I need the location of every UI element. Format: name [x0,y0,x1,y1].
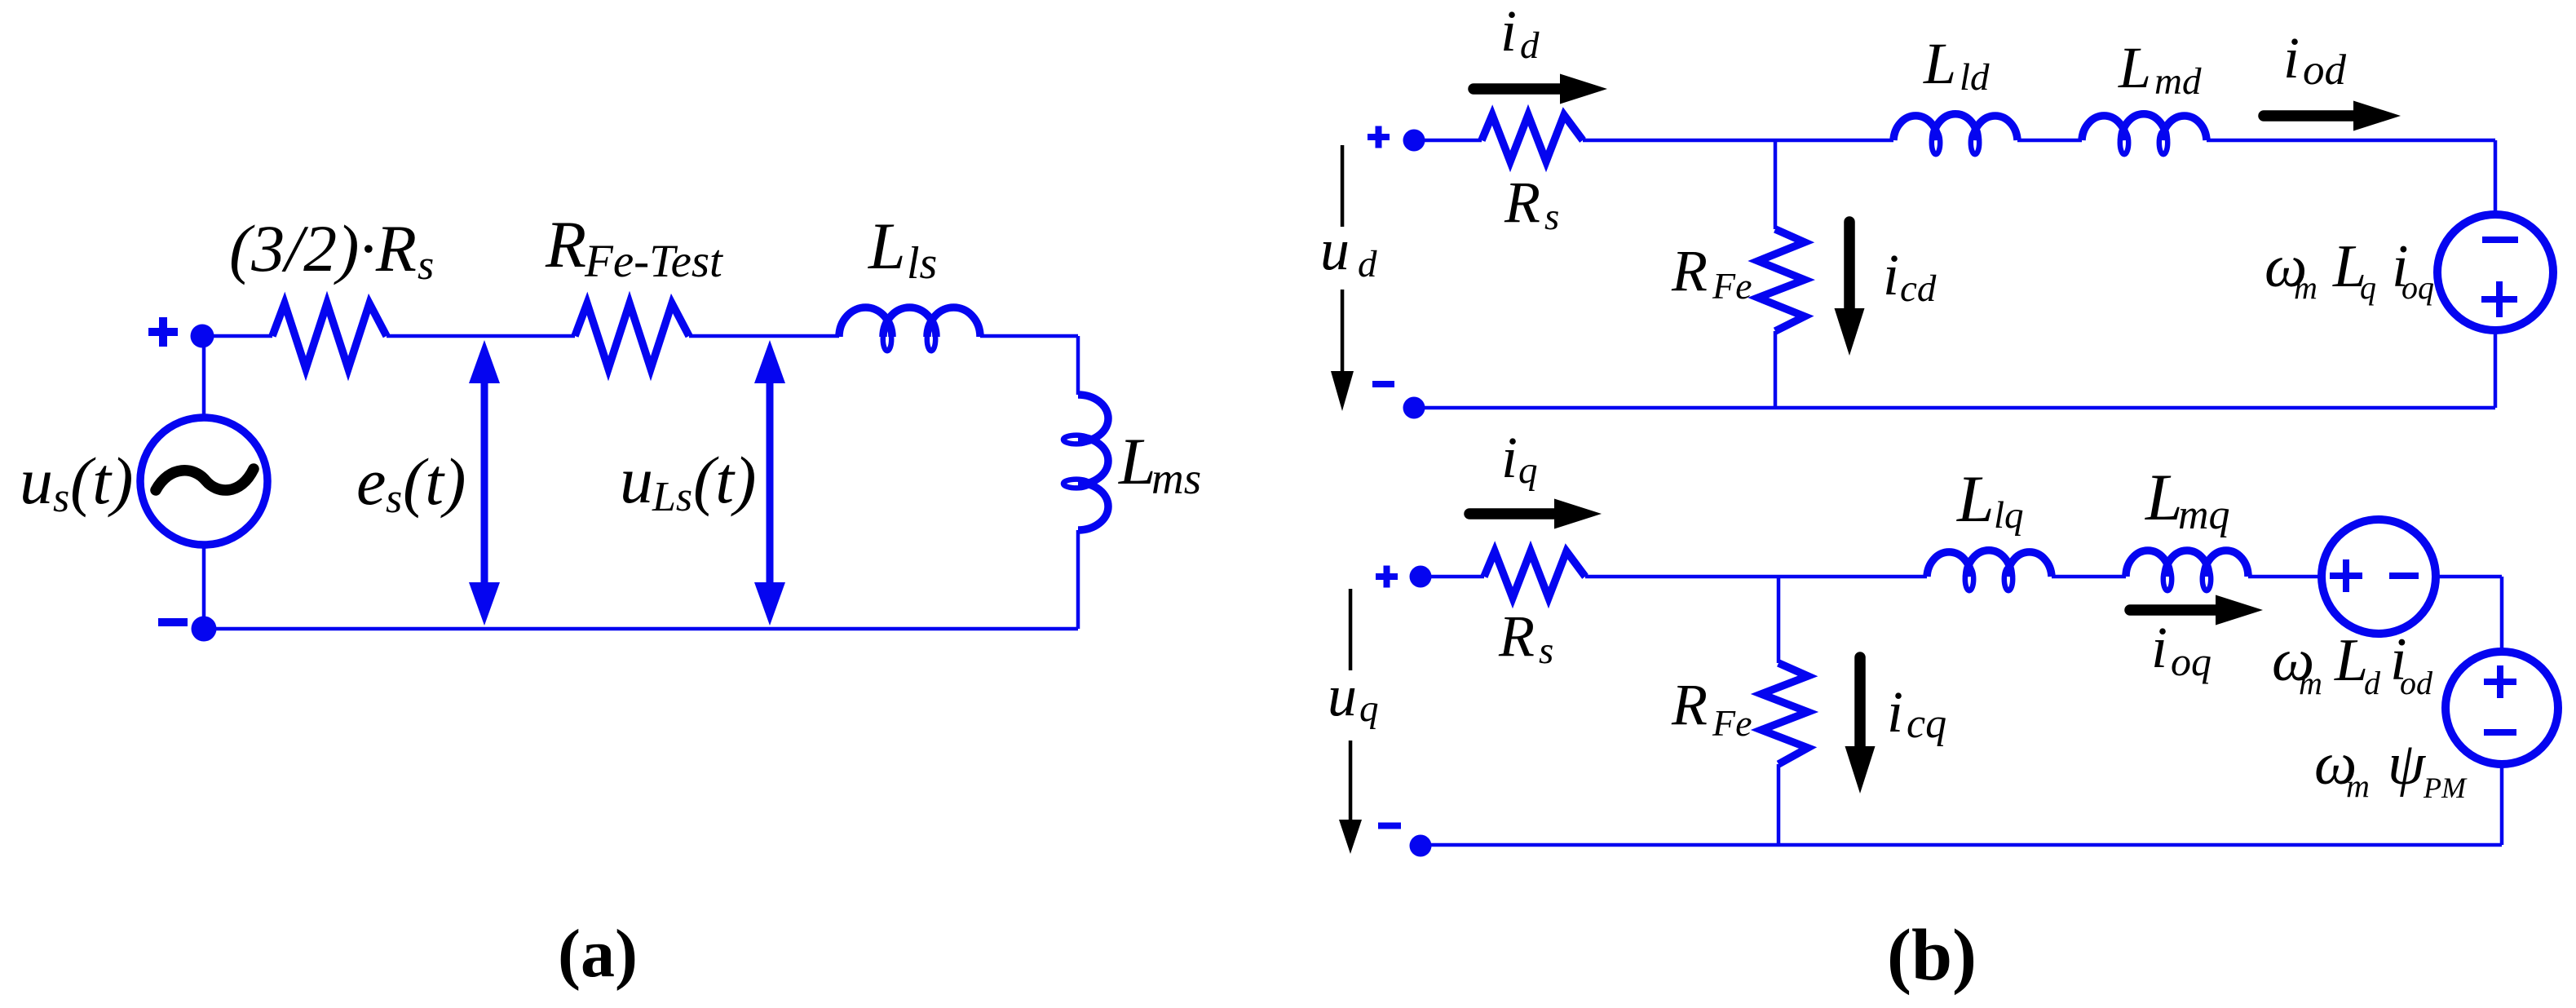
svg-text:(3/2)·Rs: (3/2)·Rs [229,211,434,289]
svg-text:iod: iod [2283,25,2347,94]
svg-text:id: id [1500,0,1540,67]
svg-text:ud: ud [1320,217,1377,285]
svg-text:RFe: RFe [1671,672,1752,744]
svg-text:Lms: Lms [1118,424,1201,503]
svg-text:Lmq: Lmq [2145,460,2230,538]
svg-text:ωmLdiod: ωmLdiod [2272,626,2433,701]
svg-text:Rs: Rs [1504,170,1559,238]
svg-text:uLs(t): uLs(t) [620,443,756,520]
svg-text:ωmψPM: ωmψPM [2314,731,2468,804]
svg-text:us(t): us(t) [20,444,133,521]
svg-text:(a): (a) [558,916,638,992]
svg-text:icd: icd [1883,242,1937,310]
svg-text:ioq: ioq [2151,615,2211,684]
svg-text:Lmd: Lmd [2118,35,2202,103]
svg-text:icq: icq [1887,679,1946,747]
svg-text:RFe: RFe [1671,238,1752,307]
svg-text:uq: uq [1328,663,1379,730]
svg-text:Llq: Llq [1956,462,2024,537]
svg-text:iq: iq [1501,425,1538,492]
svg-text:es(t): es(t) [356,444,466,522]
svg-text:Lls: Lls [868,209,937,289]
svg-text:Rs: Rs [1498,603,1553,672]
svg-text:ωmLqioq: ωmLqioq [2264,233,2434,306]
svg-text:Lld: Lld [1923,31,1990,99]
svg-text:(b): (b) [1887,915,1977,996]
svg-text:RFe-Test: RFe-Test [545,207,723,287]
